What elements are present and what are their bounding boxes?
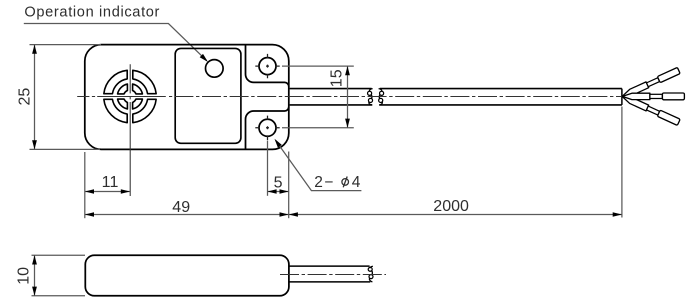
cable sheath end (621, 89, 623, 105)
dimension 25 (body width) (30, 44, 102, 46)
svg-text:4: 4 (352, 174, 361, 191)
cable (top view) (290, 88, 372, 90)
wire lead (top) (621, 67, 680, 99)
svg-text:25: 25 (16, 88, 33, 106)
sensor body (top view) (85, 45, 289, 150)
dimension 10 (body thickness) (32, 254, 86, 256)
operation indicator LED (206, 60, 224, 78)
dimension 11 (face center offset) (85, 191, 130, 193)
wire lead (bottom) (621, 94, 680, 126)
horizontal centerline (top view) (77, 96, 172, 98)
wire lead (middle) (622, 93, 684, 100)
dimension 2000 (cable length) (621, 107, 623, 218)
ear/bracket step lines (246, 45, 289, 87)
sensor body (side view) (85, 255, 289, 295)
svg-text:−: − (324, 174, 333, 191)
leader line for operation indicator (24, 24, 207, 61)
cable break (right squiggle) (379, 89, 384, 105)
svg-text:15: 15 (329, 69, 346, 87)
diameter symbol (342, 179, 349, 186)
cable (side view) (289, 265, 369, 267)
svg-text:Operation indicator: Operation indicator (24, 5, 160, 21)
svg-text:2000: 2000 (433, 198, 469, 215)
svg-text:2: 2 (314, 174, 323, 191)
dimension 15 (hole spacing) (282, 65, 354, 67)
centerline (side view) (280, 274, 386, 276)
dimension 5 (hole to edge) (267, 141, 269, 196)
mounting hole (bottom) (259, 119, 276, 136)
svg-text:10: 10 (15, 267, 32, 285)
indicator panel (175, 48, 241, 143)
svg-text:5: 5 (274, 175, 283, 192)
cable break (left squiggle) (368, 89, 373, 105)
svg-text:11: 11 (102, 174, 119, 191)
sensing face pattern (inner ring) (133, 99, 143, 109)
sensing face pattern (outer ring) (133, 99, 156, 122)
leader 2-dia4 (mounting holes) (276, 140, 362, 190)
vertical centerline through sensing face (129, 64, 131, 196)
cable break (side view) (368, 266, 373, 282)
mounting hole (top) (259, 58, 276, 75)
dimension 49 (body length) (84, 152, 86, 218)
svg-text:49: 49 (172, 199, 190, 216)
